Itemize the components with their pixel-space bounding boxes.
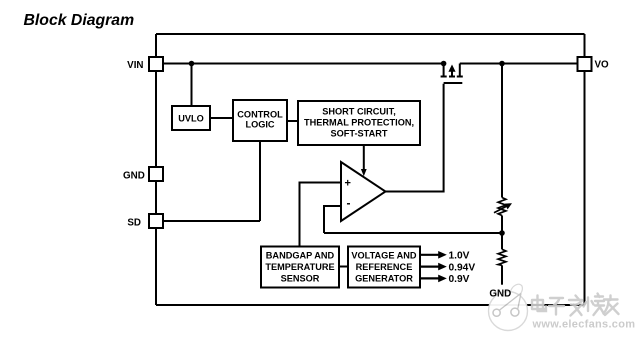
Q1 gate bar <box>444 82 463 84</box>
IC boundary box (left rail) <box>155 34 157 305</box>
Q1 source stub <box>443 64 445 76</box>
wire Q1 drain to VO <box>460 63 578 65</box>
block CONTROL LOGIC <box>233 100 287 141</box>
svg-text:0.9V: 0.9V <box>449 274 470 285</box>
pin VO (square) <box>578 57 592 71</box>
Q1 channel segments <box>441 76 463 78</box>
svg-text:-: - <box>347 196 351 210</box>
transistor Q1 (PMOS pass device) <box>441 64 463 84</box>
svg-text:GENERATOR: GENERATOR <box>355 274 413 284</box>
wire VO branch down to divider <box>501 64 503 198</box>
op-amp U1 (error amplifier) <box>341 162 386 221</box>
IC boundary box (bottom rail) <box>156 304 585 306</box>
pin GND (square) <box>149 167 163 181</box>
pin VIN (square) <box>149 57 163 71</box>
wire UVLO to CONTROL LOGIC <box>210 117 233 119</box>
wire bandgap to op-amp + input <box>300 183 342 247</box>
watermark (elecfans logo) <box>489 284 528 330</box>
junction dot at feedback tap <box>499 230 505 236</box>
svg-text:www.elecfans.com: www.elecfans.com <box>532 319 636 331</box>
junction dot at divider branch <box>499 61 505 67</box>
junction dot at VIN branch <box>189 61 195 67</box>
svg-text:TEMPERATURE: TEMPERATURE <box>265 262 334 272</box>
svg-text:LOGIC: LOGIC <box>245 120 274 130</box>
wire R1 to R2 <box>501 216 503 250</box>
block BANDGAP AND TEMPERATURE SENSOR <box>261 247 339 288</box>
wire VIN to Q1 source <box>163 63 445 65</box>
IC boundary box (right rail) <box>584 34 586 305</box>
svg-text:CONTROL: CONTROL <box>237 110 283 120</box>
svg-text:SOFT-START: SOFT-START <box>331 129 388 139</box>
svg-text:GND: GND <box>489 289 511 300</box>
svg-text:+: + <box>345 178 351 190</box>
svg-text:SD: SD <box>127 218 141 229</box>
svg-text:REFERENCE: REFERENCE <box>356 262 413 272</box>
wire feedback line to divider tap <box>324 232 502 234</box>
block VOLTAGE AND REFERENCE GENERATOR <box>348 247 420 288</box>
svg-text:UVLO: UVLO <box>178 113 204 123</box>
svg-text:VOLTAGE AND: VOLTAGE AND <box>351 251 417 261</box>
watermark (Chinese characters) <box>532 294 619 316</box>
wire bandgap to voltage reference block <box>339 266 348 268</box>
resistor R1 (trimmed, with arrow) <box>494 198 512 216</box>
svg-text:SHORT CIRCUIT,: SHORT CIRCUIT, <box>322 107 396 117</box>
svg-text:THERMAL PROTECTION,: THERMAL PROTECTION, <box>304 118 414 128</box>
svg-text:SENSOR: SENSOR <box>281 274 320 284</box>
output arrow 1.0V <box>420 254 440 256</box>
Q1 bulk arrow <box>451 69 453 76</box>
wire CONTROL LOGIC down to SD line <box>259 141 261 221</box>
svg-text:VO: VO <box>595 59 610 70</box>
output arrow 0.94V <box>420 266 440 268</box>
svg-text:BANDGAP AND: BANDGAP AND <box>266 251 335 261</box>
resistor R2 <box>498 249 506 265</box>
svg-text:Block Diagram: Block Diagram <box>24 12 135 29</box>
svg-text:VIN: VIN <box>127 60 143 71</box>
wire protection block down to error amp (with arrowhead) <box>363 145 365 170</box>
wire op-amp output to Q1 gate <box>385 84 444 192</box>
block SHORT CIRCUIT / THERMAL PROTECTION / SOFT-START <box>298 101 420 145</box>
output arrow 0.9V <box>420 277 440 279</box>
pin SD (square) <box>149 214 163 228</box>
svg-text:0.94V: 0.94V <box>449 262 476 273</box>
svg-text:GND: GND <box>123 170 145 181</box>
wire SD pin to control logic branch <box>163 220 260 222</box>
block UVLO <box>172 106 210 130</box>
wire CONTROL LOGIC to protection block <box>287 120 298 122</box>
svg-text:1.0V: 1.0V <box>449 251 470 262</box>
junction dot at Q1 source <box>441 61 447 67</box>
IC boundary box (top rail) <box>156 33 585 35</box>
wire feedback to op-amp - input <box>324 206 341 233</box>
wire VIN branch down to UVLO <box>191 64 193 107</box>
Q1 drain stub <box>459 64 461 76</box>
wire R2 to GND <box>501 265 503 284</box>
